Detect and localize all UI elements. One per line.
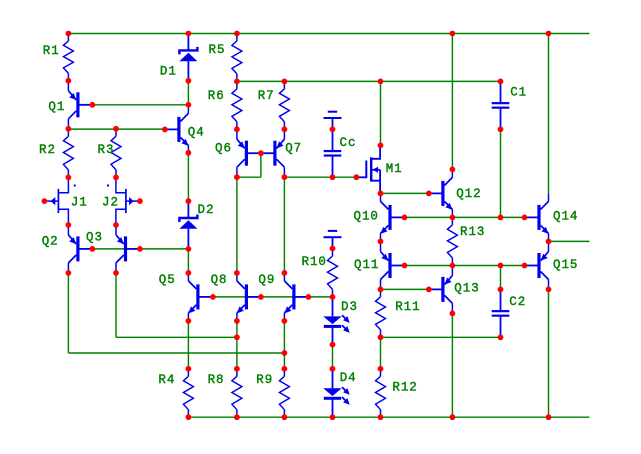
svg-text:Q3: Q3 — [86, 231, 103, 245]
svg-text:R6: R6 — [208, 89, 225, 103]
svg-text:D1: D1 — [160, 65, 177, 79]
svg-text:R10: R10 — [302, 255, 327, 269]
svg-text:Q14: Q14 — [553, 210, 578, 224]
svg-text:R9: R9 — [256, 373, 273, 387]
svg-text:J2: J2 — [102, 196, 119, 210]
svg-text:R7: R7 — [258, 89, 275, 103]
svg-text:Q1: Q1 — [48, 100, 65, 114]
svg-text:D2: D2 — [198, 203, 215, 217]
svg-text:R11: R11 — [395, 300, 420, 314]
svg-text:R1: R1 — [43, 44, 60, 58]
svg-text:Q10: Q10 — [354, 210, 379, 224]
svg-text:C2: C2 — [509, 295, 526, 309]
svg-text:Q11: Q11 — [354, 258, 379, 272]
svg-text:Q7: Q7 — [285, 141, 302, 155]
svg-text:D4: D4 — [340, 371, 357, 385]
svg-text:R12: R12 — [392, 381, 417, 395]
svg-text:R2: R2 — [39, 143, 56, 157]
svg-text:Q9: Q9 — [258, 273, 275, 287]
svg-text:Q15: Q15 — [553, 258, 578, 272]
svg-text:J1: J1 — [71, 196, 88, 210]
svg-text:Q2: Q2 — [42, 235, 59, 249]
svg-text:R3: R3 — [98, 143, 115, 157]
svg-text:Q12: Q12 — [456, 187, 481, 201]
svg-text:Q13: Q13 — [454, 281, 479, 295]
svg-text:R4: R4 — [158, 373, 175, 387]
svg-text:Q4: Q4 — [188, 125, 205, 139]
svg-text:R13: R13 — [460, 225, 485, 239]
svg-text:Q8: Q8 — [211, 273, 228, 287]
svg-text:M1: M1 — [386, 162, 403, 176]
svg-text:D3: D3 — [341, 300, 358, 314]
svg-text:C1: C1 — [510, 86, 527, 100]
svg-text:Cc: Cc — [340, 136, 357, 150]
svg-text:Q6: Q6 — [215, 141, 232, 155]
svg-text:Q5: Q5 — [159, 273, 176, 287]
svg-text:R8: R8 — [208, 373, 225, 387]
svg-text:R5: R5 — [209, 43, 226, 57]
